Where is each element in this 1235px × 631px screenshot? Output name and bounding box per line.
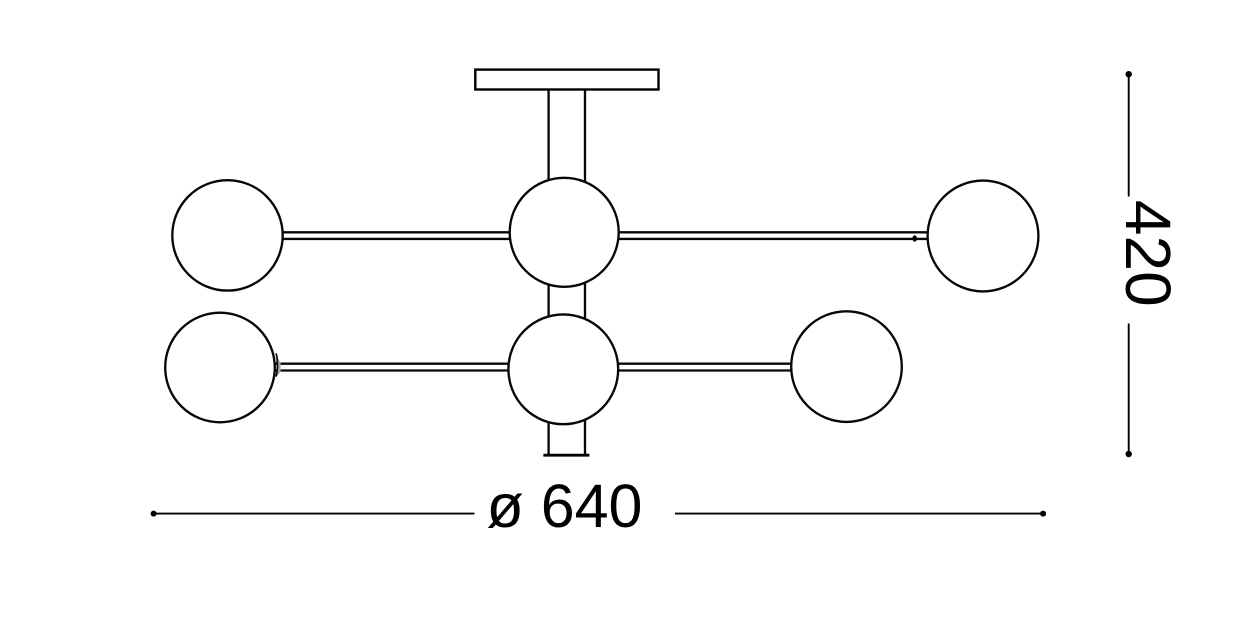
svg-text:ø 640: ø 640 [487, 472, 643, 540]
svg-text:420: 420 [1112, 200, 1184, 307]
